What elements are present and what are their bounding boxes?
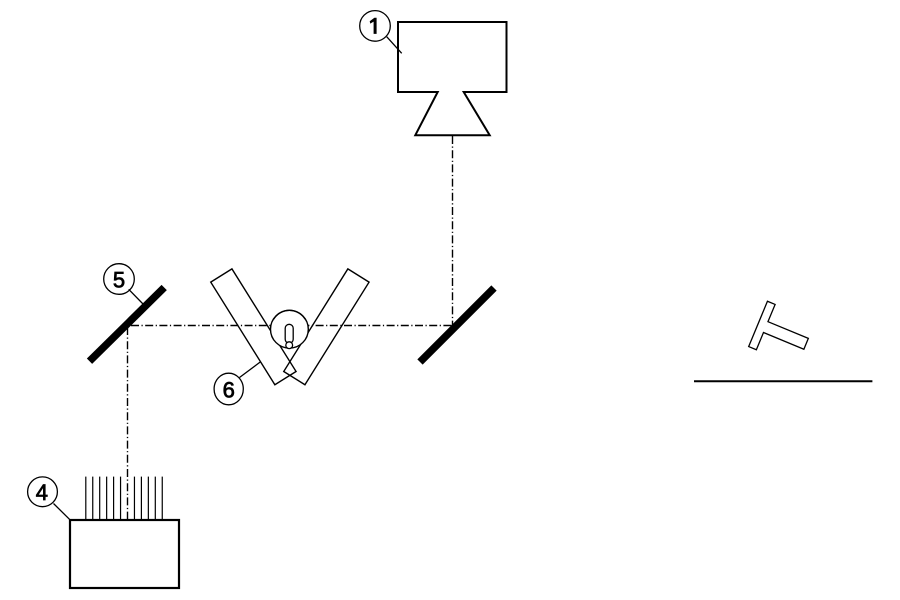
svg-text:4: 4 — [36, 480, 48, 505]
svg-text:5: 5 — [113, 267, 125, 292]
svg-text:6: 6 — [223, 377, 235, 402]
